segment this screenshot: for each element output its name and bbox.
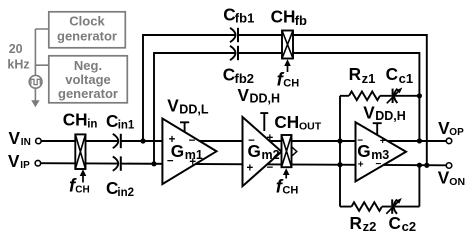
svg-text:R: R <box>350 213 363 233</box>
op-amp Gm2 <box>243 117 282 186</box>
svg-text:fb2: fb2 <box>235 71 255 86</box>
ground arrow <box>31 100 39 107</box>
svg-text:V: V <box>238 85 250 105</box>
svg-text:CH: CH <box>75 184 89 195</box>
svg-text:generator: generator <box>58 86 118 101</box>
terminal VOP <box>446 138 452 144</box>
svg-text:C: C <box>106 111 118 131</box>
svg-text:Neg.: Neg. <box>74 58 102 73</box>
capacitor Cc2 (variable) <box>391 199 393 213</box>
svg-text:−: − <box>266 162 273 174</box>
resistor Rz1 <box>349 92 380 101</box>
svg-text:+: + <box>189 157 196 169</box>
terminal VIP <box>35 160 41 166</box>
svg-text:C: C <box>223 65 235 85</box>
clock source wires <box>35 29 48 101</box>
svg-text:V: V <box>363 102 375 122</box>
svg-text:generator: generator <box>57 29 117 44</box>
clock generator box <box>49 12 126 48</box>
svg-text:−: − <box>357 135 363 146</box>
svg-text:CH: CH <box>63 110 88 130</box>
svg-text:R: R <box>349 64 362 84</box>
junction: RC arm at bottom rail <box>337 162 342 167</box>
wire: RC2 compensation row <box>340 206 419 208</box>
supply tap Gm3 (VDD,H) <box>373 123 382 135</box>
fCH arrow under CHout <box>285 175 287 179</box>
svg-text:V: V <box>438 168 450 188</box>
direction mark at CHout output <box>292 147 297 156</box>
svg-text:c2: c2 <box>402 219 416 234</box>
capacitor Cin1 <box>113 134 119 148</box>
svg-text:V: V <box>167 96 179 116</box>
junction: RC arm at top rail <box>337 138 342 143</box>
svg-text:ON: ON <box>449 176 465 188</box>
svg-text:c1: c1 <box>399 71 413 86</box>
junction: Rz1Cc1 to feedback 2 vertical <box>417 93 422 98</box>
svg-text:C: C <box>389 213 401 233</box>
terminal VON <box>446 163 452 169</box>
svg-text:CH: CH <box>282 185 298 197</box>
chopper CHout <box>282 135 292 167</box>
svg-text:DD,L: DD,L <box>179 102 209 116</box>
svg-text:−: − <box>189 135 196 147</box>
svg-text:+: + <box>266 133 273 145</box>
op-amp Gm1 <box>162 119 216 185</box>
svg-text:OUT: OUT <box>299 121 322 133</box>
svg-text:m2: m2 <box>262 148 280 162</box>
svg-text:V: V <box>8 151 20 171</box>
svg-text:in: in <box>87 118 97 130</box>
svg-text:20: 20 <box>9 42 23 56</box>
capacitor Cfb2 <box>230 46 236 60</box>
svg-text:CH: CH <box>271 7 296 27</box>
svg-text:DD,H: DD,H <box>375 109 406 123</box>
svg-text:+: + <box>169 134 176 146</box>
junction: feedback 1 to top input node <box>140 138 145 143</box>
svg-text:fb: fb <box>295 13 307 28</box>
svg-text:IP: IP <box>20 160 30 171</box>
junction: feedback 2 to bottom input node <box>151 161 156 166</box>
svg-text:z1: z1 <box>362 71 376 86</box>
svg-text:Clock: Clock <box>69 14 105 29</box>
wire: feedback net 1 (Cfb1 path, input+ to VON) <box>143 35 427 165</box>
wire: main bottom rail VIP to VON <box>41 163 447 165</box>
wire: RC2 right arm vertical <box>418 165 420 206</box>
svg-text:DD,H: DD,H <box>250 92 281 106</box>
wire: RC1 compensation row <box>340 95 419 97</box>
fCH arrow under CHin <box>82 175 84 183</box>
svg-text:+: + <box>247 163 254 175</box>
svg-text:in1: in1 <box>118 119 135 131</box>
terminal VIN <box>36 138 42 144</box>
svg-text:IN: IN <box>21 137 31 148</box>
wire: RC left arm vertical <box>339 96 341 207</box>
svg-text:C: C <box>386 64 398 84</box>
svg-text:CH: CH <box>283 78 299 90</box>
svg-text:fb1: fb1 <box>235 11 255 26</box>
fCH arrow under CHfb <box>287 66 289 73</box>
svg-text:V: V <box>438 118 450 138</box>
junction: Rz2Cc2 at node VON <box>417 163 422 168</box>
svg-text:kHz: kHz <box>7 58 29 72</box>
svg-text:CH: CH <box>274 112 299 132</box>
supply tap Gm2 (VDD,H) <box>260 113 268 131</box>
chopper CHfb <box>282 31 293 59</box>
wire: main top rail VIN to VOP <box>41 140 446 142</box>
junction: feedback 1 at node VON <box>424 163 429 168</box>
capacitor Cc1 (variable) <box>392 89 394 103</box>
svg-text:OP: OP <box>449 127 464 138</box>
resistor Rz2 <box>352 202 382 211</box>
junction: node VOP <box>417 138 422 143</box>
svg-text:−: − <box>248 135 255 147</box>
svg-text:−: − <box>375 159 381 170</box>
supply tap Gm1 (VDD,L) <box>180 122 189 132</box>
svg-text:−: − <box>167 156 174 168</box>
svg-text:z2: z2 <box>363 219 377 234</box>
clock source (square-wave symbol) <box>29 75 42 88</box>
op-amp Gm3 <box>356 122 407 181</box>
svg-text:+: + <box>358 160 364 171</box>
wire: feedback net 2 (Cfb2 path, input- to VOP) <box>154 53 419 164</box>
svg-text:in2: in2 <box>117 187 134 199</box>
svg-text:+: + <box>380 136 386 147</box>
svg-text:voltage: voltage <box>65 72 111 87</box>
chopper CHin <box>75 134 85 169</box>
svg-text:V: V <box>9 128 21 148</box>
neg. voltage generator box <box>49 56 128 103</box>
capacitor Cfb1 <box>230 28 236 42</box>
capacitor Cin2 <box>113 156 119 170</box>
